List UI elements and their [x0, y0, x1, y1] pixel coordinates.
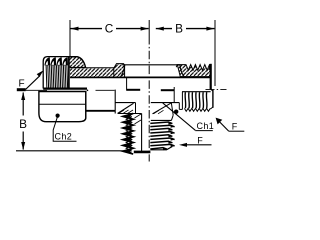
nut thread crest fins [44, 57, 50, 65]
F left leader arrow [26, 76, 41, 90]
dimension C line [71, 28, 103, 30]
branch threads top shoulder [151, 119, 172, 121]
right shoulder step [178, 103, 180, 110]
hex flat line [39, 103, 86, 105]
dimension extension line x=215 [214, 20, 216, 86]
branch hex right corner box [151, 102, 180, 104]
svg-text:B: B [19, 117, 27, 131]
branch thread minor line [141, 114, 143, 152]
tube wall section band left [70, 68, 114, 77]
swivel nut outline (section top) [43, 57, 85, 89]
right stud thread root zigzag [184, 108, 210, 111]
svg-text:C: C [105, 22, 114, 36]
stud end upper edge [210, 64, 212, 90]
baseline reference [16, 150, 126, 152]
boss underside right foot [161, 89, 174, 91]
tube band bottom edge [70, 76, 211, 78]
right stud threads exterior [182, 91, 211, 93]
boss underside left foot [126, 78, 128, 91]
hex nut Ch2 [39, 92, 86, 122]
branch vertical centerline [148, 20, 150, 36]
dimension B (top) line [156, 28, 172, 30]
Ch1 junction dot [174, 110, 178, 114]
branch threads bottom [150, 147, 172, 150]
right stud end face [212, 90, 214, 108]
nut hatched wall block [69, 57, 86, 67]
branch external threads (right half) [150, 122, 172, 124]
svg-text:F: F [18, 79, 24, 90]
F left leader bar [17, 88, 26, 91]
nut bottom section edge [43, 87, 87, 89]
Ch2 leader [53, 116, 76, 141]
raised ferrule block [114, 64, 125, 78]
neck below axis [85, 92, 87, 118]
dimension B (left vertical) [22, 93, 24, 116]
svg-text:Ch2: Ch2 [55, 131, 73, 141]
nut thread bore line [68, 57, 70, 89]
Ch1 leader [163, 103, 196, 130]
right male thread section band [177, 65, 210, 77]
dimension extension line x=70 [69, 20, 71, 56]
svg-text:F: F [232, 122, 238, 132]
hex dot [56, 114, 60, 118]
svg-text:F: F [197, 135, 203, 145]
svg-text:B: B [175, 22, 183, 36]
nut female threads [45, 65, 48, 87]
right band collar left edge [176, 65, 177, 68]
horizontal axis centerline [26, 89, 48, 91]
branch male thread section (left half) [123, 114, 133, 155]
branch bottom face [134, 151, 151, 154]
svg-text:Ch1: Ch1 [197, 121, 215, 131]
branch hex left corner box [115, 102, 135, 104]
tee boss top (section) [122, 64, 180, 66]
